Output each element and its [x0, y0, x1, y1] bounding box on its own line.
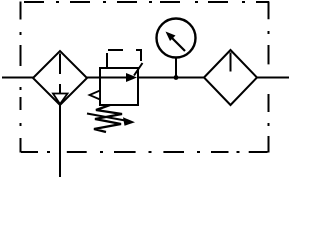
lubricator (diamond with drip line) [204, 50, 257, 105]
lubricator drip line [230, 53, 232, 72]
wire: inlet stub (left) [2, 77, 33, 79]
bottom side [21, 151, 268, 153]
pilot line (dashed) from regulator top to downstream [107, 50, 143, 76]
top side [24, 1, 269, 3]
adjustment arrow across spring [87, 114, 128, 122]
pressure gauge [157, 19, 196, 58]
wire: outlet stub (right) [257, 77, 289, 79]
regulator setting spring [94, 105, 122, 132]
wire: drain line [59, 105, 61, 177]
right side [268, 2, 270, 153]
wire: filter to regulator [87, 77, 100, 79]
pressure regulator body [100, 68, 138, 105]
filter element line lower segment [59, 84, 61, 94]
condensate drain triangle [53, 94, 68, 105]
regulator flow arrow [100, 77, 129, 79]
enclosure boundary (dash-dot phantom frame) [21, 2, 270, 153]
wire: gauge stem [175, 58, 177, 78]
filter F (diamond with separator line) [33, 51, 87, 105]
gauge needle [172, 38, 185, 51]
filter element line upper segment [59, 54, 61, 75]
wire: regulator to lubricator [138, 77, 204, 79]
regulator relief vent triangle [90, 91, 101, 100]
left side [20, 2, 22, 153]
junction node [174, 75, 179, 80]
